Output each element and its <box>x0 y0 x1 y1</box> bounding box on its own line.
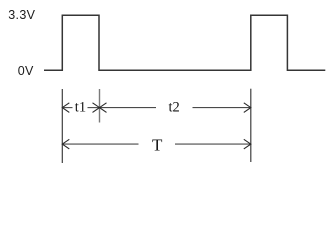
svg-text:t1: t1 <box>75 100 86 116</box>
node T right arrowhead <box>244 139 251 149</box>
svg-text:0V: 0V <box>18 64 34 78</box>
wire t2 dimension line left segment <box>100 107 157 109</box>
wire t2 dimension line right segment <box>193 107 251 109</box>
wire t1 dimension line left segment <box>62 107 72 109</box>
wire T dimension line right segment <box>175 143 251 145</box>
svg-text:3.3V: 3.3V <box>8 8 35 22</box>
node extension line at falling edge 1 <box>99 89 101 123</box>
node t2 left arrowhead <box>100 103 107 113</box>
wire t1 dimension line right segment <box>88 107 100 109</box>
node extension line at rising edge 1 <box>61 89 63 163</box>
node extension line at rising edge 2 <box>250 89 252 162</box>
svg-text:T: T <box>152 136 163 155</box>
node t2 right arrowhead <box>244 103 251 113</box>
svg-text:t2: t2 <box>169 100 180 116</box>
wire PWM waveform <box>44 15 325 70</box>
node T left arrowhead <box>62 139 69 149</box>
node t1 right arrowhead <box>93 103 100 113</box>
node t1 left arrowhead <box>62 103 69 113</box>
wire T dimension line left segment <box>62 143 138 145</box>
